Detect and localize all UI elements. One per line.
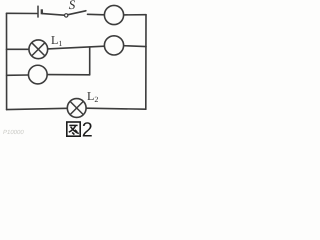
wire switch to meter A1 (88, 13, 105, 16)
svg-text:2: 2 (82, 119, 93, 142)
wire row3 right segment (47, 74, 89, 76)
lamp L1 (29, 40, 48, 59)
wire top left segment (7, 12, 38, 14)
wire meter A2 to right edge (124, 45, 146, 48)
wire right edge (145, 15, 147, 110)
caption glyph 图 drawn as paths (67, 122, 80, 136)
wire row3 left segment (7, 74, 29, 76)
wire bottom left segment (7, 108, 68, 109)
svg-text:S: S (69, 0, 76, 12)
switch S (65, 11, 86, 17)
meter circle A2 (right, row 2) (104, 36, 123, 55)
wire battery to switch (43, 14, 65, 16)
wire junction vertical connector (89, 47, 91, 75)
svg-text:P10000: P10000 (3, 129, 24, 136)
wire row2 left segment (7, 48, 30, 50)
wire meter A1 to top right corner (124, 14, 146, 16)
battery cell (38, 6, 42, 18)
wire left edge (6, 13, 8, 109)
meter circle V (below L1) (28, 65, 47, 84)
wire bottom right segment (86, 108, 146, 109)
meter circle A1 (top right) (104, 5, 123, 24)
wire row2 middle segment L1 to meter A2 (48, 46, 105, 49)
lamp L2 (67, 99, 86, 118)
